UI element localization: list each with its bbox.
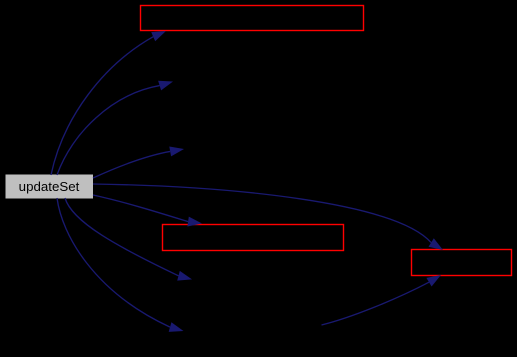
edge A: updateSet -> top red node — [51, 31, 166, 175]
node updateSet (gray) — [5, 174, 94, 199]
node: middle red box — [163, 225, 344, 251]
edge G: updateSet -> hidden node 4 — [57, 198, 184, 332]
edge F: updateSet -> hidden node 3 — [65, 198, 192, 281]
svg-text:updateSet: updateSet — [19, 179, 80, 194]
node: top red box — [141, 6, 364, 31]
edge D: updateSet -> right red node top — [93, 184, 443, 250]
edge H: hidden node 4 -> right red node bottom — [322, 275, 442, 325]
edge C: updateSet -> hidden node 2 — [93, 147, 184, 179]
edge B: updateSet -> hidden node 1 — [57, 81, 173, 175]
node: right red box — [412, 250, 512, 276]
edge E: updateSet -> middle red node — [93, 195, 202, 227]
